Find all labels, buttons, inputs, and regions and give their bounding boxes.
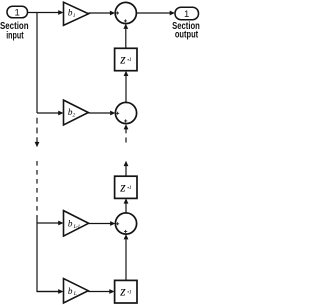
svg-text:z: z (119, 285, 126, 300)
svg-text:1: 1 (184, 9, 189, 20)
svg-text:1: 1 (73, 13, 76, 19)
svg-text:L: L (73, 291, 77, 297)
svg-text:1: 1 (129, 185, 132, 191)
svg-text:L-1: L-1 (73, 224, 81, 230)
svg-text:input: input (6, 31, 24, 42)
svg-text:b: b (68, 218, 73, 228)
svg-text:z: z (119, 181, 126, 196)
svg-text:1: 1 (15, 8, 20, 19)
svg-text:z: z (119, 53, 126, 68)
svg-text:1: 1 (129, 289, 132, 295)
svg-text:1: 1 (129, 57, 132, 63)
svg-text:2: 2 (73, 113, 76, 119)
svg-text:b: b (68, 286, 73, 296)
svg-text:output: output (175, 30, 199, 41)
